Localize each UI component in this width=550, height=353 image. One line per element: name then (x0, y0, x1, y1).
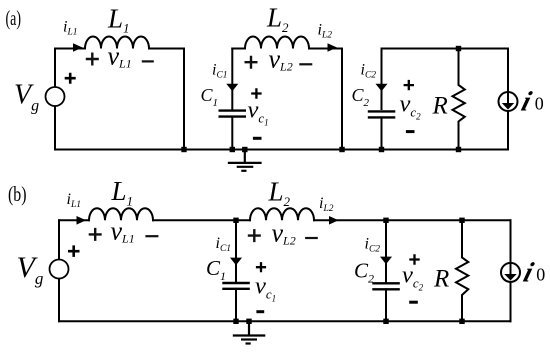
plus vc2 (404, 80, 414, 90)
svg-text:vL2: vL2 (269, 45, 293, 74)
current arrow iL1 b (77, 216, 87, 225)
wire L2 to corner (309, 48, 342, 50)
bottom rail (a) (55, 149, 508, 151)
plus polarity Vg (65, 73, 76, 84)
minus vc2 b (409, 301, 418, 304)
svg-text:vL1: vL1 (108, 42, 132, 71)
top rail right loop (a) (382, 48, 509, 50)
node dot c2 bottom b (383, 319, 388, 324)
current arrow iC2 (376, 84, 388, 92)
current source i0 (a) (499, 92, 518, 111)
wire c1 branch top (235, 220, 237, 282)
svg-text:iL1: iL1 (63, 19, 78, 38)
node dot R bottom (456, 147, 461, 152)
wire c1 bottom (231, 117, 233, 150)
plus vL2 b (248, 229, 261, 242)
label i0 (518, 87, 544, 117)
svg-text:vL2: vL2 (272, 219, 296, 248)
svg-text:iL1: iL1 (67, 191, 82, 210)
bottom rail (b) (59, 320, 511, 322)
minus vL1 (142, 60, 154, 62)
node dot R top b (459, 218, 464, 223)
svg-text:L2: L2 (266, 3, 289, 35)
svg-text:i: i (518, 87, 535, 117)
node dot c1 top (233, 218, 238, 223)
minus vc1 (253, 137, 262, 140)
wire c2 bottom (381, 117, 383, 149)
plus vc1 (251, 88, 261, 98)
svg-text:i: i (520, 258, 537, 288)
node dot R bottom b (459, 319, 464, 324)
minus vL2 b (305, 237, 318, 239)
wire i0 branch b (510, 220, 512, 321)
plus vc2 b (409, 254, 419, 264)
svg-text:(b): (b) (8, 182, 27, 206)
node dot c2 top b (383, 218, 388, 223)
node dot ground (242, 147, 247, 152)
node dot ground b (246, 319, 251, 324)
wire c1 branch bottom b (235, 289, 237, 322)
source Vg (46, 87, 65, 106)
svg-text:vc1: vc1 (248, 97, 269, 128)
svg-text:Vg: Vg (17, 251, 44, 288)
svg-text:iC1: iC1 (216, 235, 232, 254)
svg-text:L1: L1 (111, 176, 134, 208)
svg-text:vc1: vc1 (255, 272, 276, 303)
current arrow iL1 (73, 43, 83, 52)
plus vL1 (86, 53, 99, 66)
wire top rail left loop: Vg to L1 (55, 48, 85, 50)
minus vL1 b (145, 235, 158, 237)
node dot R top (456, 46, 461, 51)
current arrow iL2 (328, 43, 338, 52)
node dot (230, 147, 235, 152)
svg-text:C1: C1 (201, 85, 219, 109)
wire Vg top lead (54, 49, 56, 88)
wire L2 left top (232, 48, 245, 50)
capacitor c2 b (372, 283, 400, 289)
plus vL2 (245, 56, 258, 69)
svg-text:L1: L1 (107, 3, 130, 35)
inductor L1 b (89, 208, 153, 220)
capacitor c2 (368, 111, 396, 117)
svg-text:iL2: iL2 (318, 22, 333, 41)
inductor L1 (85, 37, 149, 49)
node dot (339, 147, 344, 152)
wire L1 to node c1 (153, 219, 250, 221)
wire c2 branch top b (385, 220, 387, 283)
wire i0 branch (507, 49, 509, 150)
svg-text:0: 0 (535, 93, 544, 113)
svg-text:iC1: iC1 (212, 62, 228, 81)
source Vg b (50, 260, 69, 279)
inductor L2 (245, 37, 309, 49)
svg-text:0: 0 (536, 265, 545, 285)
svg-text:C1: C1 (206, 256, 226, 283)
svg-text:Vg: Vg (14, 79, 39, 114)
svg-text:C2: C2 (352, 85, 370, 109)
wire Vg bottom lead (54, 106, 56, 150)
plus vL1 b (89, 228, 102, 241)
node dot (379, 147, 384, 152)
top rail (b) (59, 219, 89, 221)
svg-text:L2: L2 (268, 177, 291, 209)
svg-text:C2: C2 (354, 259, 374, 286)
resistor R (a) (453, 49, 465, 150)
capacitor c1 b (222, 283, 250, 289)
wire L2 right down (341, 49, 343, 150)
svg-text:iC2: iC2 (361, 62, 377, 81)
svg-text:vc2: vc2 (402, 262, 424, 293)
wire L2 to right (314, 219, 511, 221)
inductor L2 b (250, 208, 314, 220)
wire L1 to corner (149, 48, 184, 50)
current arrow iL2 b (329, 216, 339, 225)
ground (b) (233, 321, 265, 343)
svg-text:R: R (433, 266, 449, 293)
minus vL2 (299, 63, 312, 65)
minus vc1 b (256, 310, 264, 313)
plus vc1 b (256, 262, 266, 272)
svg-text:vL1: vL1 (111, 217, 135, 246)
resistor R (b) (456, 220, 468, 321)
capacitor c1 (219, 111, 247, 117)
wire Vg bottom lead b (58, 279, 60, 322)
svg-text:iL2: iL2 (319, 195, 334, 214)
current arrow iC2 b (380, 257, 392, 265)
ground (a) (228, 150, 262, 171)
svg-text:R: R (432, 93, 448, 120)
wire corner down (183, 49, 185, 150)
svg-text:iC2: iC2 (365, 236, 381, 255)
wire Vg top lead b (58, 220, 60, 259)
svg-text:(a): (a) (6, 6, 22, 30)
plus polarity Vg b (68, 245, 80, 257)
node dot c1 bottom (233, 319, 238, 324)
wire c2 top (381, 49, 383, 110)
current arrow iC1 b (230, 258, 242, 266)
svg-text:vc2: vc2 (400, 91, 422, 122)
current arrow iC1 (226, 84, 238, 92)
node dot (181, 147, 186, 152)
wire c1 top (231, 49, 233, 110)
current source i0 (b) (501, 263, 520, 282)
label i0 b (520, 258, 545, 288)
wire c2 branch bottom b (385, 289, 387, 321)
minus vc2 (406, 130, 415, 133)
